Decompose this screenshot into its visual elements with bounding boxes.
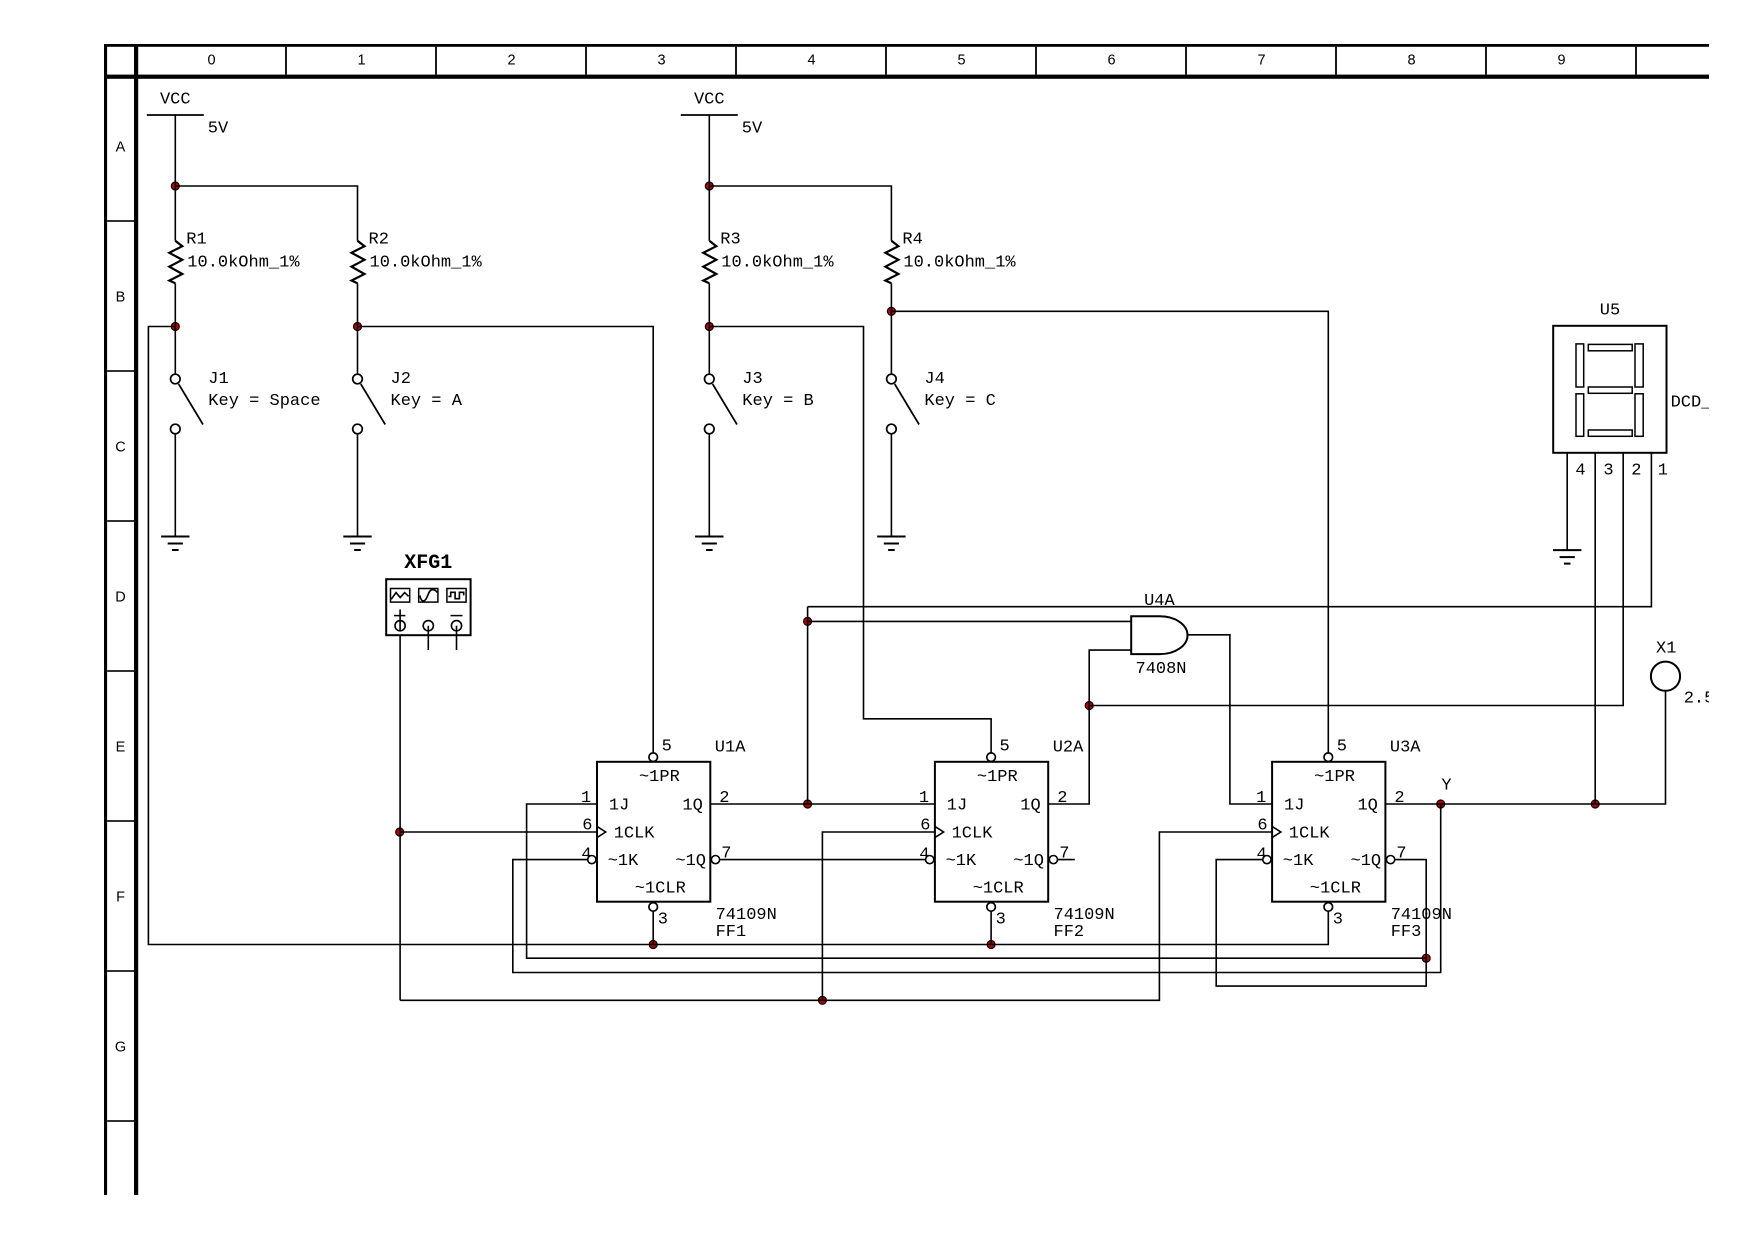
svg-text:2: 2 [1394,789,1404,808]
svg-text:X1: X1 [1656,640,1676,659]
svg-text:Key = A: Key = A [391,392,463,411]
svg-text:1CLK: 1CLK [952,825,994,844]
svg-text:~1CLR: ~1CLR [635,880,686,899]
wire FF3 1Q output Y to X1 [1385,691,1665,804]
svg-text:3: 3 [658,911,668,930]
XFG1 plus pin over-line [399,609,401,631]
svg-text:5: 5 [957,52,965,68]
svg-text:1: 1 [919,789,929,808]
JK flip-flop U2A 74109N (FF2) [935,762,1048,902]
svg-text:1Q: 1Q [682,797,702,816]
svg-text:U3A: U3A [1390,739,1421,758]
svg-text:4: 4 [807,52,815,68]
svg-text:1: 1 [357,52,365,68]
wire FF1 1Q junction up to U5 pin 1 and U4A input A [807,607,809,804]
svg-text:7: 7 [1059,845,1069,864]
svg-text:6: 6 [920,817,930,836]
svg-text:3: 3 [1333,911,1343,930]
svg-text:VCC: VCC [160,91,191,110]
svg-text:6: 6 [1257,817,1267,836]
probe X1 [1651,662,1680,691]
wire R4 node to FF3 ~1PR pin 5 [891,311,1328,753]
svg-text:~1CLR: ~1CLR [1310,880,1361,899]
wire clock junction to FF1 1CLK [400,831,597,833]
wire U5 pin 3 down to Y node [1594,453,1596,804]
svg-text:1J: 1J [947,797,967,816]
switch J2 Key = A [353,374,363,384]
svg-text:2: 2 [1057,789,1067,808]
wire switch to ground [357,434,359,537]
wire switch to ground [708,434,710,537]
svg-text:4: 4 [1257,846,1267,865]
svg-text:Key = B: Key = B [742,392,813,411]
junction clear bus at FF1 [649,941,657,949]
svg-text:7: 7 [721,845,731,864]
XFG1 plus terminal [394,615,405,617]
svg-text:~1CLR: ~1CLR [973,880,1024,899]
wire FF3 ~1Q feedback down to bus and FF3 ~1K [1216,860,1426,987]
wire VCC left stem down through R1 to J1 [174,115,176,241]
XFG1 square wave icon [448,592,463,598]
JK flip-flop U3A 74109N (FF3) [1272,762,1385,902]
svg-text:4: 4 [919,846,929,865]
svg-text:~1Q: ~1Q [675,852,706,871]
svg-text:U1A: U1A [715,739,746,758]
svg-text:9: 9 [1557,52,1565,68]
svg-text:1Q: 1Q [1020,797,1040,816]
wire U4A output to FF3 1J [1188,635,1273,804]
junction Y to U5 pin 3 [1591,800,1599,808]
svg-text:C: C [115,439,125,455]
switch J3 Key = B [705,374,715,384]
wire R1 node left and down to CLR bus (net to flip-flop clears) [148,327,1328,945]
wire FF1 1Q to FF2 1J [710,803,935,805]
wire VCC right junction to R4 top [709,186,891,241]
svg-text:1CLK: 1CLK [614,825,656,844]
junction R3/J3 node [705,323,713,331]
svg-text:7408N: 7408N [1136,660,1187,679]
svg-text:VCC: VCC [694,91,725,110]
svg-text:6: 6 [582,817,592,836]
svg-text:~1K: ~1K [608,852,639,871]
svg-text:U4A: U4A [1144,592,1175,611]
XFG1 minus terminal [451,615,463,617]
junction VCC right [705,182,713,190]
svg-text:~1K: ~1K [946,852,977,871]
svg-text:8: 8 [1407,52,1415,68]
svg-text:10.0kOhm_1%: 10.0kOhm_1% [903,254,1016,273]
svg-text:J4: J4 [924,370,944,389]
wire R2 node to FF1 ~1PR pin 5 [358,327,654,753]
junction clock to FF1 1CLK [396,828,404,836]
svg-text:~1Q: ~1Q [1351,852,1382,871]
svg-text:4: 4 [1575,461,1585,480]
junction FF1 1Q branch to U4A input A [804,617,812,625]
svg-text:2: 2 [1631,461,1641,480]
ground (J1) [161,536,189,538]
svg-text:B: B [116,289,126,305]
ground (J2) [343,536,371,538]
switch J4 Key = C [887,374,897,384]
svg-text:1: 1 [1658,461,1668,480]
clock bus wire [400,832,1272,1000]
junction clock bus to FF2 1CLK [818,996,826,1004]
wire FF1 ~1K from Y feedback bus [513,804,1441,973]
svg-text:5: 5 [1337,738,1347,757]
svg-text:D: D [115,589,125,605]
svg-text:1CLK: 1CLK [1289,825,1331,844]
resistor R3 10.0kOhm_1% [703,241,716,284]
svg-text:7: 7 [1257,52,1265,68]
wire VCC right stem down through R3 to J3 [708,115,710,241]
svg-text:Y: Y [1441,777,1451,796]
svg-text:~1PR: ~1PR [977,768,1018,787]
svg-text:J3: J3 [742,370,762,389]
svg-text:R3: R3 [720,231,740,250]
wire switch to ground [890,434,892,537]
svg-text:FF1: FF1 [716,923,747,942]
wire R2 bottom to J2 [357,283,359,374]
svg-text:5V: 5V [742,120,763,139]
svg-text:U5: U5 [1600,302,1620,321]
svg-text:FF2: FF2 [1054,923,1085,942]
svg-text:~1PR: ~1PR [639,768,680,787]
junction R2/J2 node [354,323,362,331]
JK flip-flop U1A 74109N (FF1) [597,762,710,902]
wire FF1 ~1CLR to clear bus [652,911,654,944]
wire XFG1 + output down to clock bus [399,632,401,1001]
wire FF2 ~1CLR to clear bus [990,911,992,944]
svg-text:~1PR: ~1PR [1314,768,1355,787]
junction clear bus at FF2 [987,941,995,949]
switch J1 Key = Space [171,374,181,384]
junction FF3 ~1Q feedback [1422,954,1430,962]
svg-text:5V: 5V [208,120,229,139]
ground (U5 pin 4) [1553,549,1581,551]
AND gate U4A 7408N [1131,616,1187,654]
svg-text:Key = Space: Key = Space [208,392,320,411]
wire FF2 ~1Q stub [1058,859,1075,861]
svg-text:3: 3 [657,52,665,68]
svg-text:0: 0 [207,52,215,68]
ground (J3) [695,536,723,538]
wire U5 pin 4 to ground [1566,453,1568,550]
svg-text:~1Q: ~1Q [1013,852,1044,871]
svg-text:3: 3 [1603,461,1613,480]
svg-text:R4: R4 [902,231,922,250]
junction on FF1 1Q wire [804,800,812,808]
svg-text:G: G [115,1039,126,1055]
XFG1 common pin stub [427,626,429,650]
svg-text:1: 1 [1256,789,1266,808]
wire R4 bottom to J4 [890,283,892,374]
svg-text:10.0kOhm_1%: 10.0kOhm_1% [721,254,834,273]
resistor R2 10.0kOhm_1% [352,241,365,284]
svg-text:U2A: U2A [1053,739,1084,758]
wire switch to ground [174,434,176,537]
svg-text:2: 2 [719,789,729,808]
svg-text:1: 1 [581,789,591,808]
svg-text:Key = C: Key = C [924,392,995,411]
svg-text:6: 6 [1107,52,1115,68]
svg-text:F: F [116,889,125,905]
svg-text:R2: R2 [369,231,389,250]
ground (J4) [877,536,905,538]
svg-text:J1: J1 [208,370,228,389]
wire FF1 1J from feedback bus [527,804,1427,958]
svg-text:3: 3 [996,911,1006,930]
svg-text:R1: R1 [186,231,206,250]
svg-text:4: 4 [581,846,591,865]
svg-text:J2: J2 [391,370,411,389]
junction VCC left [171,182,179,190]
svg-text:2: 2 [507,52,515,68]
XFG1 sine wave icon [420,590,437,601]
svg-text:1J: 1J [1284,797,1304,816]
svg-text:7: 7 [1396,845,1406,864]
junction Y to feedback bus [1437,800,1445,808]
svg-text:1J: 1J [609,797,629,816]
svg-text:5: 5 [1000,738,1010,757]
resistor R1 10.0kOhm_1% [169,241,182,284]
wire junction to U4A input A [808,620,1132,622]
svg-text:5: 5 [662,738,672,757]
junction R4/J4 node [887,307,895,315]
wire FF1 ~1Q to FF2 ~1K [720,859,926,861]
junction FF2 1Q branch [1085,702,1093,710]
svg-text:XFG1: XFG1 [404,552,452,575]
resistor R4 10.0kOhm_1% [885,241,898,284]
XFG1 minus pin stub [456,626,458,650]
junction R1/J1 node [171,323,179,331]
sheet border frame [104,44,1709,47]
wire R3 node to FF2 ~1PR pin 5 [709,327,991,753]
wire FF2 1Q up to U4A input B and U5 pin 2 [1048,650,1131,804]
svg-text:~1K: ~1K [1283,852,1314,871]
svg-text:FF3: FF3 [1391,923,1422,942]
svg-text:E: E [116,739,126,755]
svg-text:10.0kOhm_1%: 10.0kOhm_1% [187,254,300,273]
svg-text:A: A [116,139,126,155]
svg-text:DCD_: DCD_ [1671,393,1713,412]
svg-text:10.0kOhm_1%: 10.0kOhm_1% [370,254,483,273]
XFG1 triangle wave icon [391,593,408,600]
wire clock bus riser to FF2 1CLK [822,832,935,1000]
wire VCC left junction to R2 top [175,186,357,241]
svg-text:1Q: 1Q [1357,797,1377,816]
